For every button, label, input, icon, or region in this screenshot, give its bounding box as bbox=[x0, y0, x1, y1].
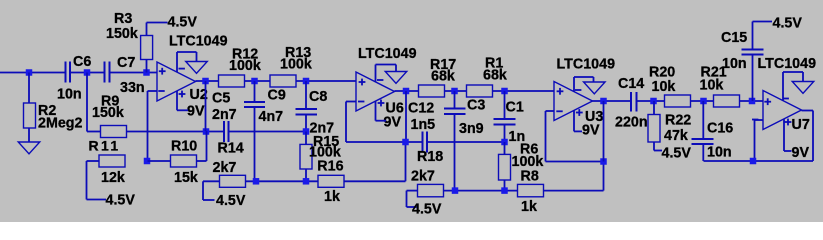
wire R20 to R21 bbox=[691, 100, 714, 102]
svg-text:12k: 12k bbox=[101, 170, 125, 186]
wire 4.5V stub to R18 bbox=[407, 191, 417, 207]
wire U2 output down to feedback line bbox=[205, 81, 207, 131]
svg-text:220n: 220n bbox=[615, 115, 648, 131]
wire U2 top supply pin bbox=[177, 52, 197, 72]
svg-text:C5: C5 bbox=[212, 91, 230, 107]
capacitor C7 33n bbox=[105, 55, 145, 96]
wire feedback line 3 bbox=[546, 161, 604, 163]
svg-text:R16: R16 bbox=[317, 158, 343, 174]
resistor R12 100k bbox=[219, 47, 261, 88]
node C6/R9 junction bbox=[84, 69, 91, 76]
svg-text:C16: C16 bbox=[707, 121, 733, 137]
svg-text:100k: 100k bbox=[280, 57, 312, 73]
net label 4.5V below R14 bbox=[216, 193, 246, 209]
svg-text:LTC1049: LTC1049 bbox=[169, 34, 228, 50]
svg-text:4.5V: 4.5V bbox=[412, 202, 442, 218]
svg-text:R22: R22 bbox=[665, 113, 691, 129]
resistor R16 1k bbox=[317, 158, 344, 205]
wire R10 up to feedback node bbox=[206, 131, 208, 161]
resistor R9 150k bbox=[87, 73, 127, 138]
capacitor C9 4n7 bbox=[244, 81, 286, 181]
svg-text:4.5V: 4.5V bbox=[662, 146, 692, 162]
svg-text:150k: 150k bbox=[106, 26, 138, 42]
node C3/R18 junction bbox=[452, 187, 459, 194]
svg-text:15k: 15k bbox=[174, 170, 198, 186]
wire C6 to C7 bbox=[70, 72, 105, 74]
svg-text:4.5V: 4.5V bbox=[168, 15, 198, 31]
wire 4.5V stub to R14 bbox=[203, 181, 215, 200]
wire feedback line y131 (R9 to C5) bbox=[127, 131, 225, 133]
wire U3 bottom supply pin to 9V bbox=[574, 110, 582, 131]
wire U6 output down to feedback line 2 bbox=[405, 91, 407, 142]
wire R12 to R13 bbox=[245, 80, 270, 82]
svg-text:4.5V: 4.5V bbox=[773, 16, 803, 32]
wire R16 right to U6 output node bbox=[344, 142, 406, 181]
node R6 bottom junction bbox=[501, 187, 508, 194]
capacitor C16 10n bbox=[692, 101, 734, 161]
node C8/C5/R15 junction bbox=[303, 128, 310, 135]
node R21/C15 junction bbox=[749, 98, 756, 105]
resistor R10 15k bbox=[148, 139, 207, 187]
capacitor C5 2n7 bbox=[212, 91, 237, 143]
svg-text:47k: 47k bbox=[664, 128, 688, 144]
wire feedback line 2 (U6- to C12) bbox=[346, 141, 423, 143]
svg-text:1n5: 1n5 bbox=[411, 117, 436, 133]
resistor R2 2Meg2 bbox=[24, 73, 83, 143]
svg-text:C6: C6 bbox=[73, 54, 91, 70]
svg-text:10n: 10n bbox=[57, 87, 82, 103]
node C9/R14 junction bbox=[253, 178, 260, 185]
svg-text:C9: C9 bbox=[268, 88, 286, 104]
resistor R6 100k bbox=[499, 142, 544, 191]
wire R8 right to U3 output node bbox=[544, 162, 604, 191]
svg-text:2n7: 2n7 bbox=[212, 107, 237, 123]
wire C7 to U2 +input bbox=[110, 72, 158, 74]
wire U6 -input bbox=[346, 102, 356, 143]
node R13/C8 junction bbox=[303, 78, 310, 85]
capacitor C3 3n9 bbox=[444, 91, 485, 191]
node C1/C12/R6 junction bbox=[501, 139, 508, 146]
wire C12 to C1/R6 node bbox=[427, 141, 505, 143]
resistor R1 68k bbox=[467, 56, 507, 98]
resistor R18 2k7 bbox=[407, 149, 444, 197]
wire U6 output to R17 bbox=[395, 90, 419, 92]
svg-text:10k: 10k bbox=[700, 78, 724, 94]
node R20/C16 junction bbox=[700, 98, 707, 105]
wire R18 to R8 bbox=[444, 190, 518, 192]
op-amp U2 LTC1049 bbox=[157, 34, 228, 120]
svg-text:C15: C15 bbox=[721, 30, 747, 46]
net label 4.5V below R22 bbox=[662, 146, 692, 162]
svg-text:4.5V: 4.5V bbox=[216, 193, 246, 209]
svg-text:R11: R11 bbox=[89, 138, 121, 154]
resistor R20 10k bbox=[649, 65, 691, 108]
svg-text:R8: R8 bbox=[521, 169, 539, 185]
svg-text:LTC1049: LTC1049 bbox=[557, 57, 616, 73]
wire U2 -input to R10/R11 junction bbox=[148, 91, 158, 161]
svg-text:150k: 150k bbox=[92, 105, 124, 121]
svg-text:LTC1049: LTC1049 bbox=[758, 56, 817, 72]
wire R13 to U6 +input bbox=[296, 80, 356, 82]
wire C5 to C8/R15 node bbox=[229, 131, 306, 133]
node C14/R22 junction bbox=[650, 98, 657, 105]
svg-text:R18: R18 bbox=[417, 149, 443, 165]
wire R3 to 4.5V stub bbox=[147, 22, 168, 24]
net label 4.5V below R18 bbox=[412, 202, 442, 218]
svg-text:10n: 10n bbox=[707, 145, 732, 161]
svg-text:C14: C14 bbox=[618, 76, 644, 92]
capacitor C14 220n bbox=[615, 76, 648, 131]
svg-text:C1: C1 bbox=[506, 100, 524, 116]
svg-text:68k: 68k bbox=[483, 68, 507, 84]
svg-text:9V: 9V bbox=[384, 114, 402, 130]
resistor R3 150k bbox=[106, 11, 153, 73]
wire U2 output to R12 bbox=[196, 80, 219, 82]
wire R14 to R16 bbox=[246, 180, 319, 182]
wire U7 top supply pin bbox=[783, 72, 803, 101]
supply flag above U6 bbox=[385, 72, 407, 84]
resistor R21 10k bbox=[700, 65, 740, 108]
capacitor C8 2n7 bbox=[296, 81, 335, 137]
wire R21 to U7 +input bbox=[740, 100, 764, 102]
capacitor C15 10n bbox=[721, 22, 772, 102]
svg-text:2k7: 2k7 bbox=[411, 169, 435, 185]
wire C14 to R20 bbox=[637, 100, 665, 102]
svg-text:9V: 9V bbox=[187, 104, 205, 120]
svg-text:LTC1049: LTC1049 bbox=[358, 46, 417, 62]
wire U7 bottom supply pin to 9V bbox=[784, 119, 792, 151]
resistor R22 47k bbox=[648, 101, 691, 151]
supply flag above U3 bbox=[584, 82, 606, 94]
svg-text:4n7: 4n7 bbox=[259, 109, 284, 125]
svg-text:10n: 10n bbox=[722, 56, 747, 72]
node U2 output/feedback junction bbox=[203, 128, 210, 135]
node U6 output bbox=[403, 88, 410, 95]
node input/R2 junction bbox=[26, 69, 33, 76]
svg-text:9V: 9V bbox=[582, 123, 600, 139]
node R15 bottom junction bbox=[303, 178, 310, 185]
svg-text:2k7: 2k7 bbox=[213, 160, 237, 176]
wire U7 output feedback loop bbox=[753, 111, 813, 162]
node U3 output bbox=[600, 98, 607, 105]
svg-text:2Meg2: 2Meg2 bbox=[38, 116, 83, 132]
svg-text:C3: C3 bbox=[467, 98, 485, 114]
svg-text:C12: C12 bbox=[408, 101, 434, 117]
svg-text:1k: 1k bbox=[324, 189, 340, 205]
node R1/C1 junction bbox=[501, 88, 508, 95]
resistor R15 100k bbox=[300, 132, 341, 182]
svg-text:C7: C7 bbox=[117, 55, 135, 71]
resistor R17 68k bbox=[419, 57, 457, 97]
node R11/R10/U2- junction bbox=[144, 158, 151, 165]
svg-text:R3: R3 bbox=[114, 11, 132, 27]
capacitor C6 10n bbox=[57, 54, 91, 103]
capacitor C12 1n5 bbox=[408, 101, 435, 153]
svg-text:100k: 100k bbox=[229, 58, 261, 74]
wire R1 to U3 +input bbox=[493, 90, 555, 92]
node U2 output bbox=[202, 78, 209, 85]
node U7 feedback junction bbox=[750, 158, 757, 165]
node R17/C3 junction bbox=[451, 88, 458, 95]
svg-text:33n: 33n bbox=[120, 80, 145, 96]
wire U3 top supply pin bbox=[574, 77, 594, 92]
svg-text:R14: R14 bbox=[218, 141, 244, 157]
node C7/R3 junction bbox=[143, 69, 150, 76]
resistor R13 100k bbox=[270, 45, 312, 87]
wire U6 bottom supply pin to 9V bbox=[376, 101, 387, 121]
node feedback2/U6 output junction bbox=[402, 139, 409, 146]
resistor R14 2k7 bbox=[203, 141, 246, 188]
ground below R2 bbox=[18, 142, 40, 154]
node R12/C9 junction bbox=[251, 78, 258, 85]
svg-text:68k: 68k bbox=[431, 69, 455, 85]
supply flag above U2 bbox=[186, 62, 208, 74]
wire C16 to U7 feedback line bbox=[704, 160, 754, 162]
wire U3 output down to feedback bbox=[603, 101, 605, 162]
net label 4.5V below R11 bbox=[106, 193, 136, 209]
svg-text:1k: 1k bbox=[521, 199, 537, 215]
svg-text:U7: U7 bbox=[792, 117, 810, 133]
svg-text:10k: 10k bbox=[652, 79, 676, 95]
resistor R11 12k bbox=[87, 138, 126, 187]
net label 4.5V top-left bbox=[168, 15, 198, 31]
wire input rail from left edge to C6 bbox=[0, 72, 65, 74]
svg-text:3n9: 3n9 bbox=[459, 121, 484, 137]
svg-text:4.5V: 4.5V bbox=[106, 193, 136, 209]
op-amp U6 LTC1049 bbox=[356, 46, 417, 130]
node U3 feedback junction bbox=[600, 158, 607, 165]
wire U7 -input bbox=[755, 120, 764, 161]
supply flag above U7 bbox=[792, 82, 814, 94]
wire R17 to R1 bbox=[445, 90, 467, 92]
svg-text:C8: C8 bbox=[309, 89, 327, 105]
svg-text:R10: R10 bbox=[171, 139, 197, 155]
resistor R8 1k bbox=[518, 169, 544, 216]
wire R11 to 4.5V stub bbox=[87, 161, 107, 200]
wire U2 bottom supply pin to 9V bbox=[177, 91, 188, 110]
wire U3 output to C14 bbox=[593, 100, 632, 102]
op-amp U7 LTC1049 bbox=[752, 56, 816, 161]
svg-text:9V: 9V bbox=[792, 145, 810, 161]
wire U3 -input bbox=[546, 111, 555, 162]
wire U6 top supply pin bbox=[376, 65, 397, 83]
net label 4.5V top-right bbox=[773, 16, 803, 32]
op-amp U3 LTC1049 bbox=[554, 57, 615, 139]
capacitor C1 1n bbox=[494, 91, 526, 145]
